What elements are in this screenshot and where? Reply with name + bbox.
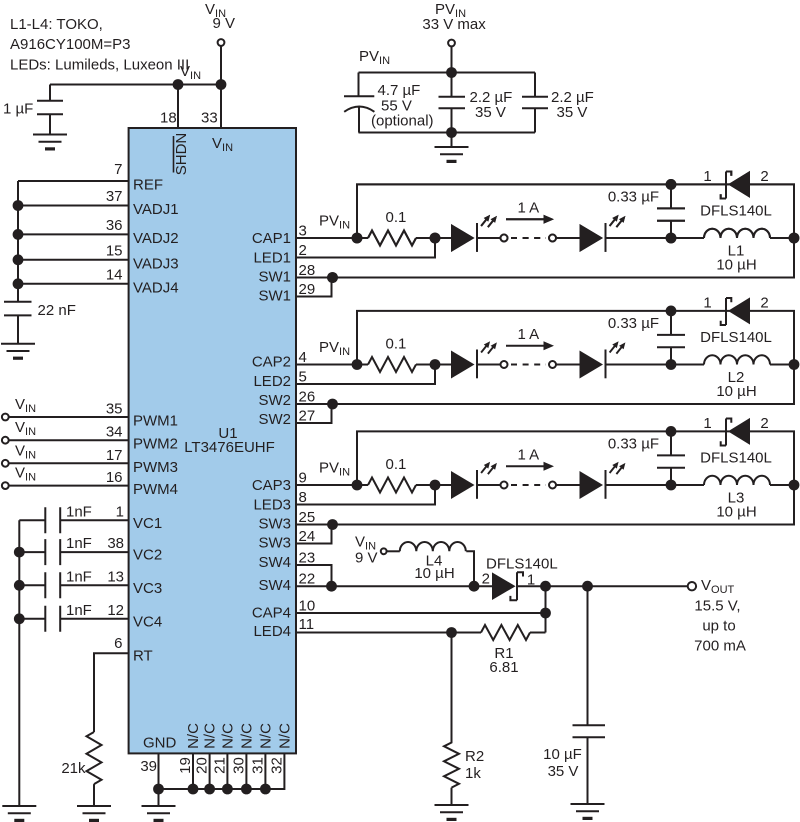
junction R2 top	[446, 627, 457, 638]
junction pin18 drop	[173, 79, 184, 90]
resistor R1	[481, 625, 546, 676]
VOUT terminal	[688, 577, 746, 655]
ground under 10uF	[571, 804, 605, 820]
svg-text:PWM2: PWM2	[133, 436, 178, 453]
svg-text:VC2: VC2	[133, 547, 162, 564]
svg-text:VADJ4: VADJ4	[133, 280, 179, 297]
ground under 21k	[77, 806, 111, 822]
svg-text:2: 2	[299, 242, 307, 259]
svg-text:700 mA: 700 mA	[694, 638, 746, 655]
capacitor 4.7uF polarized	[344, 73, 434, 133]
svg-text:DFLS140L: DFLS140L	[700, 450, 772, 467]
svg-text:(optional): (optional)	[371, 113, 434, 130]
svg-text:15: 15	[106, 243, 123, 260]
svg-text:12: 12	[107, 602, 124, 619]
pin N/C 21	[211, 723, 236, 794]
wire inductor to right edge	[770, 237, 794, 239]
dashed wire	[511, 237, 546, 239]
svg-text:14: 14	[106, 267, 123, 284]
svg-text:17: 17	[106, 447, 123, 464]
svg-text:N/C: N/C	[276, 723, 293, 749]
VIN 9V input terminal	[205, 1, 235, 46]
svg-text:11: 11	[299, 616, 315, 633]
svg-text:SW1: SW1	[258, 288, 291, 305]
ground VC bus	[2, 806, 36, 822]
svg-text:0.33 µF: 0.33 µF	[608, 189, 659, 206]
LED second	[580, 215, 626, 252]
svg-text:35 V: 35 V	[548, 763, 579, 780]
svg-text:9 V: 9 V	[355, 550, 378, 567]
wire REF/VADJ bus	[17, 181, 19, 302]
svg-text:SW4: SW4	[258, 554, 291, 571]
svg-text:1nF: 1nF	[66, 568, 92, 585]
svg-text:RT: RT	[133, 648, 153, 665]
svg-text:10 µF: 10 µF	[543, 746, 582, 763]
svg-text:25: 25	[299, 509, 316, 526]
pin N/C 19	[177, 723, 202, 794]
svg-text:SW1: SW1	[258, 269, 291, 286]
svg-text:2: 2	[760, 295, 768, 312]
svg-text:1: 1	[703, 168, 711, 185]
wire LED2 cathode to cap junction	[606, 237, 705, 239]
svg-text:N/C: N/C	[219, 723, 236, 749]
PVIN 33V input terminal	[422, 1, 486, 46]
pin VC1 with 1nF	[19, 503, 162, 533]
svg-text:VIN: VIN	[15, 419, 36, 438]
N/C pins bus	[159, 753, 285, 789]
svg-text:LED2: LED2	[253, 373, 291, 390]
svg-text:SW2: SW2	[258, 411, 291, 428]
svg-text:PVIN: PVIN	[319, 460, 350, 479]
svg-text:24: 24	[299, 528, 316, 545]
svg-text:35: 35	[106, 401, 123, 418]
svg-text:VADJ1: VADJ1	[133, 201, 179, 218]
svg-text:SW2: SW2	[258, 392, 291, 409]
svg-text:1 µF: 1 µF	[3, 101, 33, 118]
svg-text:up to: up to	[702, 618, 735, 635]
capacitor 10uF	[543, 586, 605, 804]
svg-text:38: 38	[107, 535, 124, 552]
junction inductor right	[789, 233, 800, 244]
svg-text:CAP3: CAP3	[252, 477, 291, 494]
svg-text:VIN: VIN	[15, 442, 36, 461]
junction pin33 drop	[216, 79, 227, 90]
resistor R2	[444, 633, 484, 806]
wire PVIN block bottom rail	[359, 132, 536, 134]
svg-text:SW3: SW3	[258, 535, 291, 552]
junction cap bottom	[666, 233, 677, 244]
svg-text:7: 7	[114, 161, 122, 178]
svg-text:22 nF: 22 nF	[38, 302, 76, 319]
ground under 1uF	[33, 135, 67, 151]
svg-text:18: 18	[160, 110, 177, 127]
svg-text:SHDN: SHDN	[173, 133, 190, 176]
wire PVIN junction up and top rail to right edge down to SW bus	[296, 184, 794, 277]
svg-text:1 A: 1 A	[518, 199, 540, 216]
capacitor 22nF	[4, 302, 76, 344]
svg-text:3: 3	[299, 223, 307, 240]
svg-text:10: 10	[299, 598, 316, 615]
pin N/C 31	[249, 723, 274, 794]
resistor 0.1	[368, 231, 416, 246]
inductor L	[704, 229, 770, 238]
svg-text:32: 32	[268, 757, 285, 774]
wire SW second pin link	[296, 278, 332, 297]
svg-text:9: 9	[299, 470, 307, 487]
svg-text:LEDs: Lumileds, Luxeon III: LEDs: Lumileds, Luxeon III	[10, 57, 189, 74]
svg-text:1: 1	[703, 415, 711, 432]
svg-text:2: 2	[760, 168, 768, 185]
capacitor 0.33uF	[657, 184, 685, 238]
junction diode out	[540, 581, 551, 592]
wire pin 18	[177, 85, 179, 129]
svg-text:1 A: 1 A	[518, 326, 540, 343]
svg-text:CAP1: CAP1	[252, 230, 291, 247]
wire LED pin riser	[296, 238, 435, 258]
channel geometry template	[296, 171, 799, 297]
svg-text:CAP4: CAP4	[252, 605, 291, 622]
junction bottom rail	[446, 127, 457, 138]
svg-text:29: 29	[299, 281, 316, 298]
wire to LED2	[556, 237, 579, 239]
svg-text:2: 2	[760, 415, 768, 432]
ground under 22nF	[1, 344, 35, 360]
svg-text:VC4: VC4	[133, 613, 162, 630]
svg-text:30: 30	[230, 757, 247, 774]
capacitor 2.2uF middle	[439, 73, 513, 133]
svg-text:8: 8	[299, 489, 307, 506]
svg-text:13: 13	[107, 568, 124, 585]
junction LED pin	[430, 233, 441, 244]
pin SW4 22 bus to diode	[296, 585, 492, 587]
svg-text:VIN: VIN	[15, 396, 36, 415]
svg-text:1: 1	[116, 503, 124, 520]
svg-text:DFLS140L: DFLS140L	[486, 556, 558, 573]
svg-text:PWM3: PWM3	[133, 459, 178, 476]
wire VC bus	[18, 520, 20, 806]
svg-text:0.1: 0.1	[386, 336, 407, 353]
wire resistor to LED anode	[416, 237, 451, 239]
svg-text:34: 34	[106, 424, 123, 441]
svg-text:VC1: VC1	[133, 515, 162, 532]
svg-text:CAP2: CAP2	[252, 354, 291, 371]
IC top pin labels	[173, 133, 233, 176]
wire LED4 pin	[296, 632, 481, 634]
svg-text:LT3476EUHF: LT3476EUHF	[184, 439, 275, 456]
pin VADJ4	[18, 283, 129, 285]
wire L4 down to SW4 bus	[466, 551, 474, 586]
svg-text:L1-L4: TOKO,: L1-L4: TOKO,	[10, 16, 103, 33]
pin PWM4	[2, 465, 178, 499]
svg-text:10 µH: 10 µH	[716, 504, 756, 521]
channel 1 labels	[252, 168, 772, 305]
svg-text:VIN: VIN	[180, 63, 201, 82]
svg-text:1nF: 1nF	[66, 503, 92, 520]
svg-text:6: 6	[114, 635, 122, 652]
svg-text:23: 23	[299, 550, 316, 567]
svg-text:PWM4: PWM4	[133, 481, 178, 498]
pin PWM2	[2, 419, 178, 453]
svg-text:33 V max: 33 V max	[422, 16, 486, 33]
wire PVIN terminal drop	[451, 46, 453, 72]
svg-text:21k: 21k	[61, 760, 86, 777]
svg-text:VOUT: VOUT	[701, 577, 735, 596]
pin SW4 23 link	[296, 565, 332, 586]
svg-text:5: 5	[299, 369, 307, 386]
wire VIN terminal to rail	[220, 46, 222, 85]
wire VIN rail	[50, 84, 221, 86]
svg-text:PVIN: PVIN	[319, 339, 350, 358]
pin VC2 with 1nF	[14, 535, 162, 565]
channel 2 labels	[252, 295, 772, 429]
pin N/C 20	[194, 723, 219, 794]
pin N/C 32	[268, 723, 293, 774]
svg-text:GND: GND	[143, 735, 177, 752]
1A arrow	[506, 218, 544, 220]
channel 2	[296, 297, 799, 423]
svg-text:21: 21	[211, 757, 228, 774]
wire terminal to L4	[387, 550, 400, 552]
IC U1 body	[129, 128, 296, 753]
connector circle left	[501, 235, 508, 242]
svg-text:0.33 µF: 0.33 µF	[608, 315, 659, 332]
svg-text:9 V: 9 V	[213, 15, 236, 32]
wire PVIN block top rail	[359, 72, 536, 74]
channel 1	[296, 171, 799, 297]
svg-text:N/C: N/C	[238, 723, 255, 749]
wire LED1 cathode to connector	[477, 237, 500, 239]
junction PVIN rail	[446, 67, 457, 78]
ground under PVIN block	[435, 147, 469, 163]
svg-text:27: 27	[299, 408, 316, 425]
svg-text:33: 33	[201, 110, 218, 127]
wire CAP4 pin	[296, 612, 546, 614]
svg-text:1nF: 1nF	[66, 602, 92, 619]
pin VADJ3	[18, 259, 129, 261]
pin VC4 with 1nF	[14, 602, 162, 632]
inductor L4	[400, 542, 466, 551]
pin PWM3	[2, 442, 178, 476]
svg-text:LED4: LED4	[253, 623, 291, 640]
svg-text:10 µH: 10 µH	[414, 565, 454, 582]
svg-text:15.5 V,: 15.5 V,	[694, 598, 740, 615]
diode DFLS140L schottky	[721, 171, 750, 199]
svg-text:VIN: VIN	[15, 465, 36, 484]
svg-text:35 V: 35 V	[557, 104, 588, 121]
svg-text:SW3: SW3	[258, 516, 291, 533]
svg-text:DFLS140L: DFLS140L	[700, 329, 772, 346]
svg-text:VADJ2: VADJ2	[133, 230, 179, 247]
svg-text:LED3: LED3	[253, 497, 291, 514]
pin VC3 with 1nF	[14, 568, 162, 598]
svg-text:2: 2	[482, 571, 490, 588]
capacitor 1uF	[3, 85, 63, 135]
wire CAP pin to PVIN junction	[296, 237, 368, 239]
wire ground stem	[451, 133, 453, 148]
svg-text:0.1: 0.1	[386, 209, 407, 226]
pin GND 39	[140, 735, 176, 807]
LED first	[451, 215, 497, 252]
svg-text:35 V: 35 V	[475, 104, 506, 121]
pin PWM1	[2, 396, 178, 430]
svg-text:39: 39	[140, 758, 157, 775]
junction cap top	[666, 179, 677, 190]
junction PVIN/CAP	[352, 233, 363, 244]
svg-text:26: 26	[299, 389, 316, 406]
ground under GND pin	[142, 806, 176, 822]
svg-text:1k: 1k	[465, 765, 481, 782]
wire diode-out riser	[545, 586, 547, 632]
svg-text:N/C: N/C	[185, 723, 202, 749]
wire pin 33	[220, 85, 222, 129]
svg-text:SW4: SW4	[258, 577, 291, 594]
svg-text:4: 4	[299, 349, 307, 366]
pin N/C 30	[230, 723, 255, 794]
svg-text:DFLS140L: DFLS140L	[700, 203, 772, 220]
svg-text:36: 36	[106, 217, 123, 234]
svg-text:A916CY100M=P3: A916CY100M=P3	[10, 36, 131, 53]
svg-text:19: 19	[177, 757, 194, 774]
svg-text:4.7 µF: 4.7 µF	[378, 82, 421, 99]
svg-text:31: 31	[249, 757, 266, 774]
diode D4 DFLS140L	[482, 556, 558, 601]
svg-text:VADJ3: VADJ3	[133, 256, 179, 273]
pin RT	[94, 635, 153, 732]
junction 10uF	[582, 581, 593, 592]
svg-text:PVIN: PVIN	[359, 48, 390, 67]
svg-text:20: 20	[194, 757, 211, 774]
svg-text:1: 1	[703, 295, 711, 312]
junction SW link	[327, 272, 338, 283]
connector circle right	[549, 235, 556, 242]
pin REF	[18, 180, 129, 182]
svg-text:N/C: N/C	[257, 723, 274, 749]
svg-text:N/C: N/C	[202, 723, 219, 749]
svg-text:VC3: VC3	[133, 580, 162, 597]
svg-text:1nF: 1nF	[66, 535, 92, 552]
svg-text:PVIN: PVIN	[319, 213, 350, 232]
svg-text:0.1: 0.1	[386, 456, 407, 473]
VIN 9V terminal for L4	[355, 534, 387, 567]
svg-text:28: 28	[299, 262, 316, 279]
resistor 21k	[61, 732, 101, 806]
svg-text:LED1: LED1	[253, 250, 291, 267]
svg-text:10 µH: 10 µH	[716, 383, 756, 400]
svg-text:16: 16	[106, 469, 123, 486]
pin VADJ1	[18, 205, 129, 207]
channel 3	[296, 418, 799, 544]
ground under R2	[435, 805, 469, 821]
channel 3 labels	[252, 415, 772, 552]
svg-text:10 µH: 10 µH	[716, 257, 756, 274]
svg-text:0.33 µF: 0.33 µF	[608, 436, 659, 453]
svg-text:37: 37	[106, 188, 123, 205]
svg-text:PWM1: PWM1	[133, 413, 178, 430]
svg-text:22: 22	[299, 571, 316, 588]
svg-text:REF: REF	[133, 177, 163, 194]
capacitor 2.2uF right	[522, 73, 594, 133]
svg-text:R2: R2	[465, 748, 484, 765]
svg-text:1 A: 1 A	[518, 446, 540, 463]
pin VADJ2	[18, 233, 129, 235]
svg-text:6.81: 6.81	[489, 659, 518, 676]
wire diode to VOUT	[517, 585, 688, 587]
